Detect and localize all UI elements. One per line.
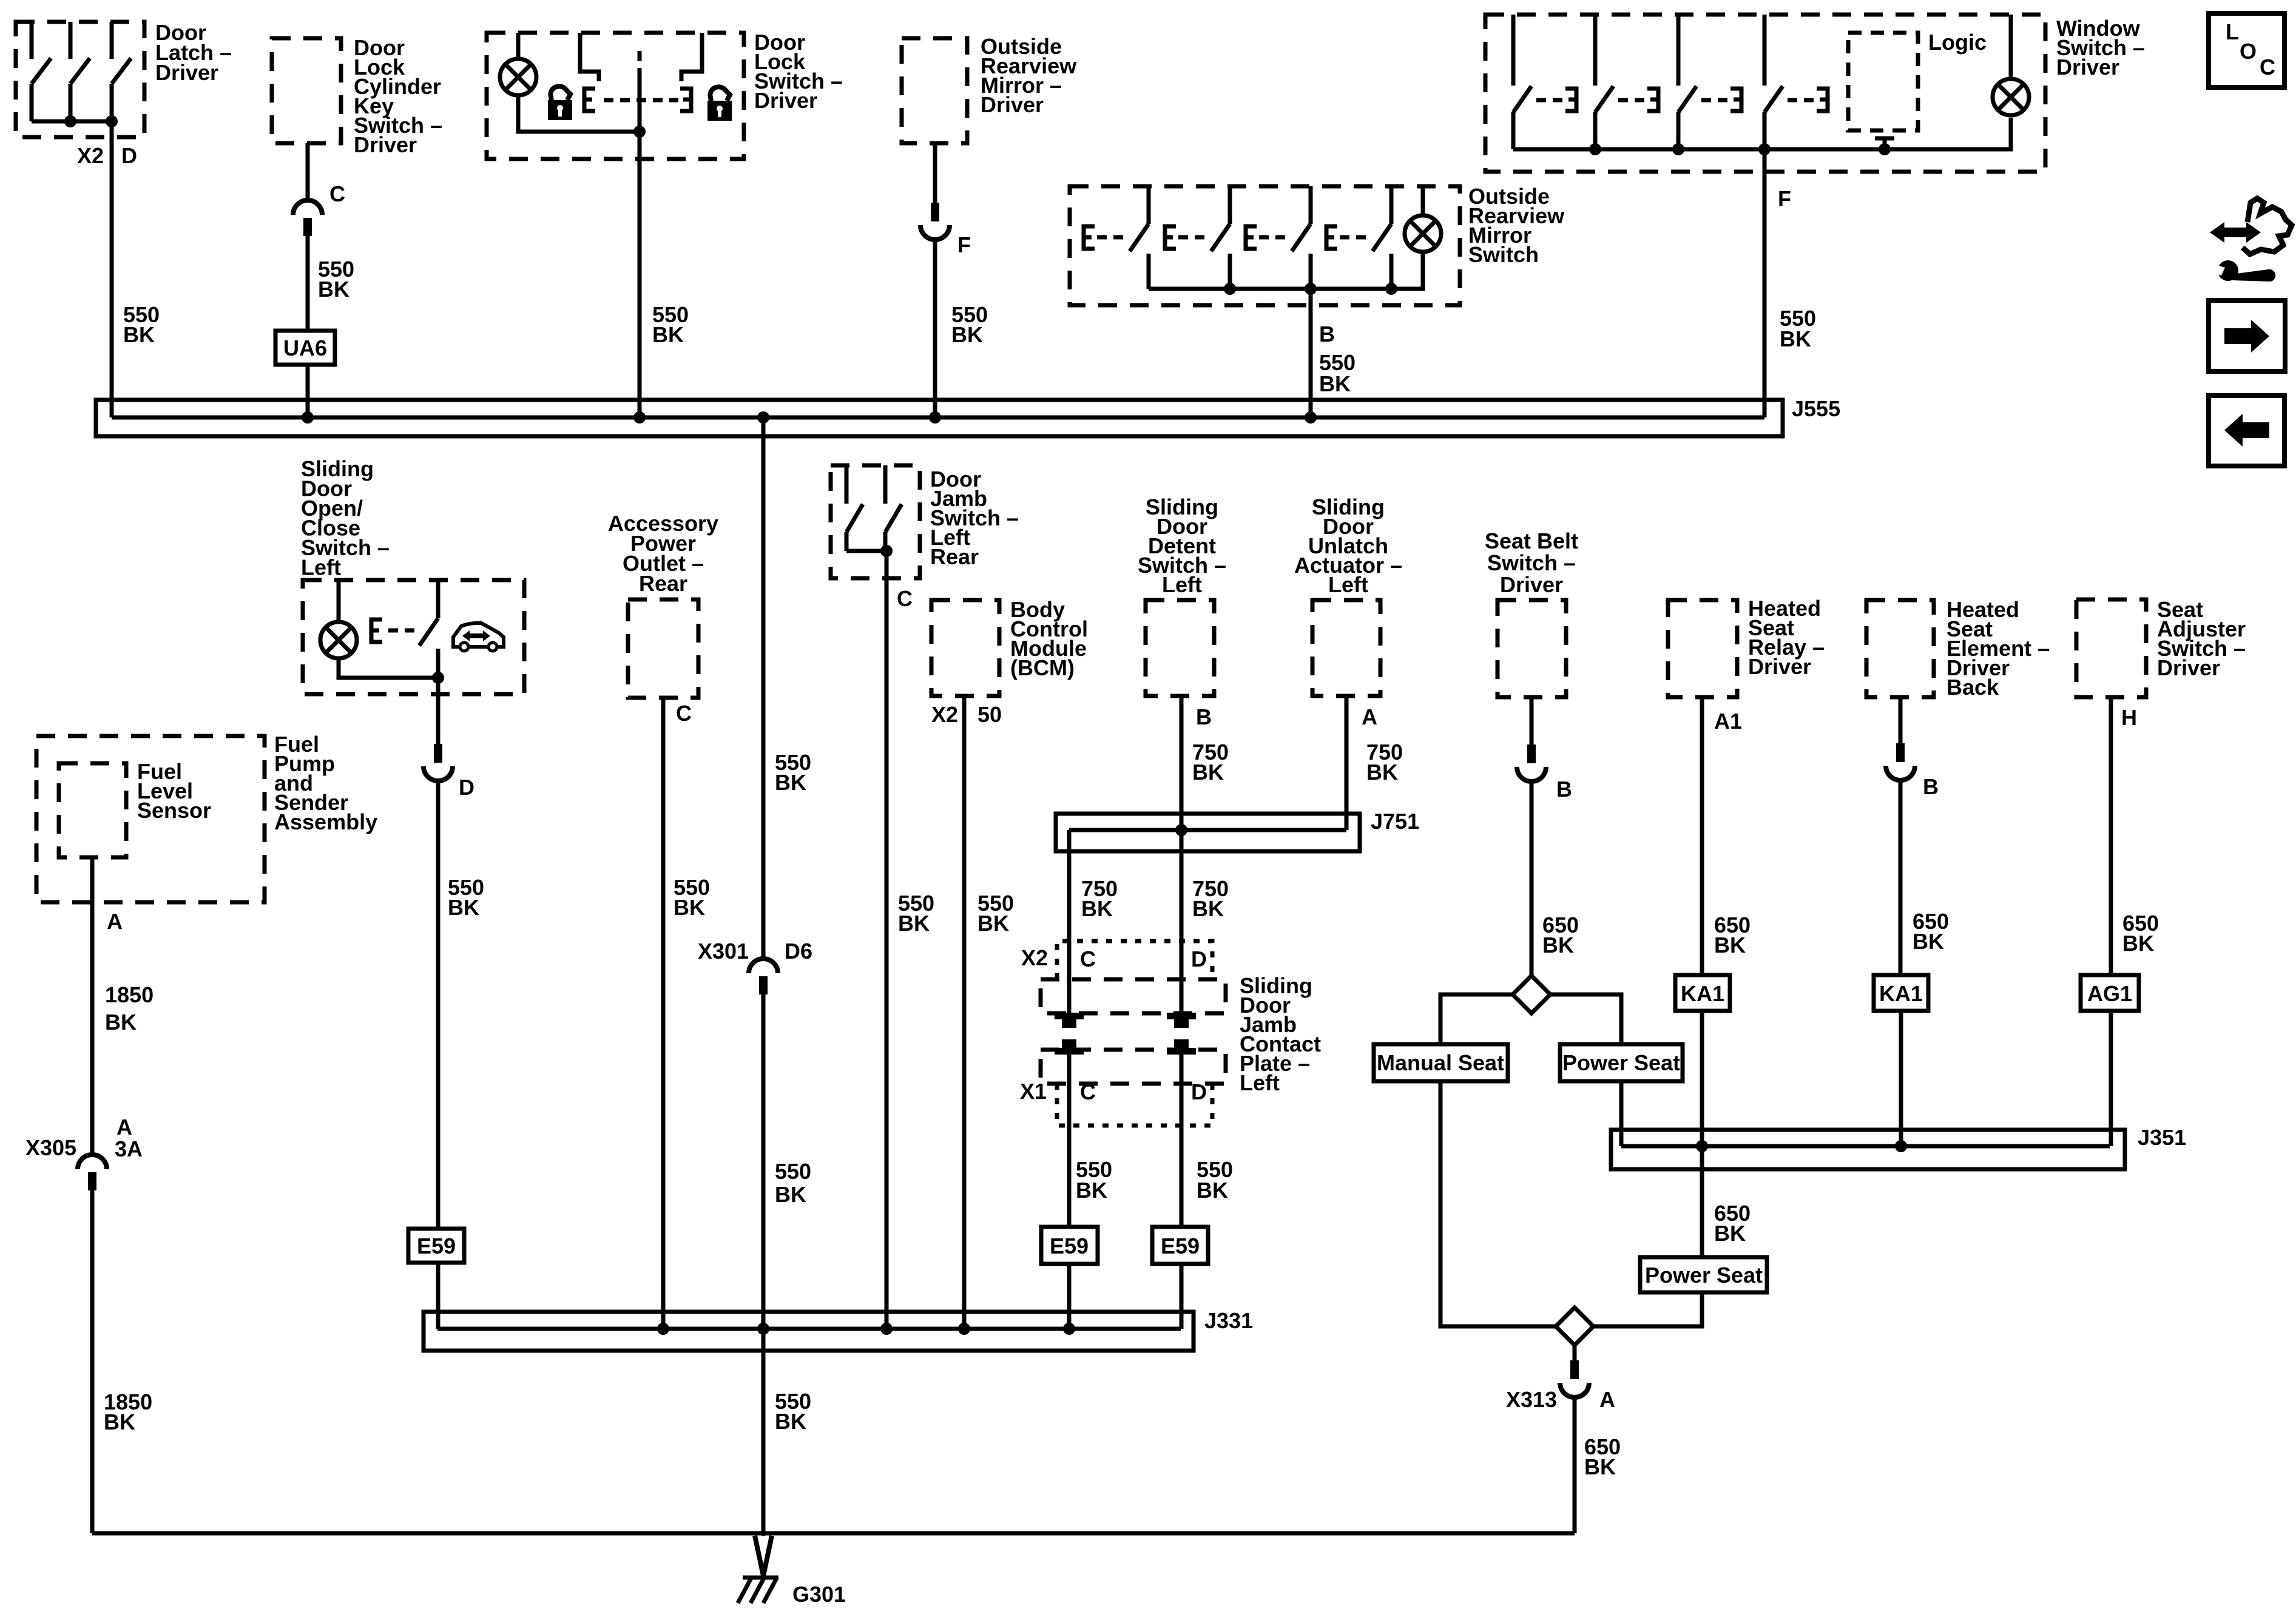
fuse box E59 plate C wire [1041,1227,1098,1264]
junction dot detent wire on J751 [1175,824,1187,836]
label D door latch pin [121,143,137,168]
svg-text:C: C [2260,55,2275,79]
label F connector mirror [957,232,971,257]
connector B seat belt [1517,744,1546,781]
component box Body Control Module BCM [931,600,999,696]
component box Sliding Door Detent Switch - Left [1146,600,1214,696]
switch stub sliding door [436,580,441,618]
label Window Switch - Driver [2056,16,2145,79]
svg-text:D: D [1191,947,1207,971]
wire X305 to ground line [90,1190,95,1533]
label 750 BK plate D wire [1192,876,1229,921]
label 650 BK seat belt wire [1542,913,1579,957]
svg-text:C: C [1080,947,1096,971]
junction dot door lock switch [633,126,646,138]
splice bus J751 outline [1056,814,1360,851]
wire J751 to contact plate C [1067,830,1072,1014]
svg-text:750BK: 750BK [1192,740,1229,785]
label Seat Belt Switch - Driver [1485,528,1578,597]
component box Door Lock Cylinder Key Switch - Driver [272,38,341,143]
svg-text:550BK: 550BK [318,257,354,302]
svg-text:KA1: KA1 [1681,981,1724,1006]
svg-text:D: D [1191,1079,1207,1104]
dashed link sliding door switch [388,629,415,633]
ground symbol G301 [738,1578,778,1603]
junction dot plate C wire on J331 [1063,1323,1075,1335]
svg-text:E59: E59 [1050,1234,1089,1258]
label Accessory Power Outlet - Rear [608,511,718,596]
label 650 BK element wire [1913,909,1949,954]
wire lamp to conductor sliding [339,658,438,678]
wire KA1 through J351 to Power Seat [1700,1011,1704,1257]
logic pin tick [1875,138,1894,149]
label 1850 BK fuel wire lower [104,1389,152,1434]
label C accessory outlet pin [676,701,692,726]
component box contact plate lower [1041,1050,1226,1084]
logic box window switch [1848,33,1918,130]
label X2 BCM connector [931,702,958,727]
label A unlatch pin [1362,704,1377,729]
wire contact plate C to J331 [1067,1053,1072,1329]
wire accessory outlet to J331 [661,698,666,1329]
svg-text:F: F [1778,186,1791,211]
svg-text:O: O [2240,39,2257,64]
component box Accessory Power Outlet - Rear [628,599,698,698]
svg-text:BK: BK [1197,1178,1228,1203]
label A X305 pin [116,1115,132,1139]
label Heated Seat Relay - Driver [1748,596,1825,679]
label 3A X305 [115,1136,143,1161]
label 550 BK below plate C [1076,1157,1112,1203]
label 750 BK unlatch wire [1366,740,1403,785]
label B detent pin [1196,704,1212,729]
svg-text:BK: BK [775,1182,806,1207]
component box Heated Seat Element - Driver Back [1866,600,1934,697]
wire Power Seat lower to lower diamond [1593,1292,1702,1326]
label A1 relay pin [1714,709,1742,734]
label C contact plate X2 [1080,947,1096,971]
component box Heated Seat Relay - Driver [1668,600,1737,697]
lamp stub mirror switch [1421,186,1425,215]
junction dot sliding door switch [432,672,444,684]
label X1 contact plate [1020,1079,1047,1104]
label B element connector [1923,774,1939,799]
svg-text:X313: X313 [1506,1387,1557,1412]
junction dot BCM wire on J331 [958,1323,970,1335]
conductor window switch [1513,118,2011,149]
junction dot UA6 wire on J555 [302,411,314,424]
label Outside Rearview Mirror - Driver [981,34,1077,117]
label Heated Seat Element - Driver Back [1947,597,2050,700]
switch hook right door lock switch [681,33,702,81]
component box Window Switch - Driver [1485,15,2045,172]
svg-text:750BK: 750BK [1081,876,1118,921]
label J751 [1371,809,1419,834]
junction dot mirror switch wire on J555 [1305,411,1317,424]
label 550 BK mirror switch wire [1319,350,1356,396]
svg-text:650BK: 650BK [1913,909,1949,954]
svg-text:G301: G301 [792,1582,846,1607]
label Seat Adjuster Switch - Driver [2157,597,2246,680]
svg-text:550BK: 550BK [448,875,484,920]
splice bus J331 conductor [437,1327,1181,1331]
svg-text:A: A [1362,704,1377,729]
label Sliding Door Open Close Switch - Left [301,456,390,580]
connector F mirror driver [920,203,950,240]
option box Manual Seat [1374,1044,1508,1081]
icon hand with wrench [2210,198,2292,282]
label J331 [1204,1308,1253,1333]
svg-text:Logic: Logic [1928,30,1987,55]
wire mirror driver to connector F [933,143,937,203]
component box Door Lock Switch - Driver [487,33,744,159]
contact lower D [1167,1039,1196,1055]
switch lower contact sliding door [436,649,441,678]
label D contact plate X1 [1191,1079,1207,1104]
label C contact plate X1 [1080,1079,1096,1104]
option box UA6 [275,331,335,365]
svg-text:D6: D6 [785,939,812,964]
wire J555 to X301 [761,417,766,960]
svg-text:C: C [1080,1079,1096,1104]
svg-text:550BK: 550BK [652,302,689,347]
junction dot main wire on J331 [757,1323,769,1335]
ground wire horizontal run [92,1531,1575,1536]
bracket 3 door lock switch [680,89,691,111]
wire UA6 to J555 [306,365,310,417]
svg-text:B: B [1319,322,1335,346]
dashed link door lock switch [604,98,678,103]
component box Door Latch - Driver [16,22,144,137]
conductor mirror switch [1149,253,1423,289]
wire X313 to ground line [1573,1397,1577,1533]
svg-text:1850: 1850 [105,982,154,1007]
junction dot jamb wire on J331 [880,1323,893,1335]
label 550 BK main wire lower [775,1159,811,1207]
svg-text:E59: E59 [1161,1234,1200,1258]
wire sliding door switch to connector D [436,678,441,744]
connector D sliding door [424,744,453,781]
label 550 BK sliding door wire [448,875,484,920]
wire window switch F to J555 [1763,149,1767,417]
component box Door Jamb Switch - Left Rear [831,465,920,578]
label Sliding Door Unlatch Actuator - Left [1294,495,1402,597]
svg-text:B: B [1556,777,1572,802]
connector X301 D6 [749,959,778,994]
lamp window switch [1993,79,2029,115]
splice bus J555 outline [96,400,1783,436]
label 650 BK relay wire [1714,913,1751,957]
label X313 [1506,1387,1557,1412]
label G301 [792,1582,846,1607]
label 50 BCM pin [977,702,1002,727]
svg-text:550BK: 550BK [123,302,160,347]
contact upper D [1167,1013,1196,1028]
component box Sliding Door Open Close Switch - Left [303,580,524,694]
svg-text:J555: J555 [1792,396,1840,421]
svg-text:J751: J751 [1371,809,1419,834]
label 550 BK main wire upper [775,750,811,795]
wire detent switch to J751 [1180,696,1184,830]
svg-text:KA1: KA1 [1879,981,1923,1006]
component box Sliding Door Unlatch Actuator - Left [1312,600,1380,696]
svg-text:X305: X305 [25,1135,76,1160]
svg-text:J331: J331 [1204,1308,1253,1333]
bracket E door lock switch [584,89,595,111]
label Door Lock Cylinder Key Switch - Driver [354,35,442,157]
svg-text:Manual Seat: Manual Seat [1377,1050,1504,1075]
svg-text:750BK: 750BK [1192,876,1229,921]
label 550 BK mirror driver wire [951,302,988,347]
wire connector D to J331 [436,781,441,1329]
connector C door lock cylinder [293,200,322,236]
option box AG1 [2081,975,2139,1011]
svg-text:550BK: 550BK [898,891,934,936]
svg-text:A: A [107,909,123,934]
component box Seat Adjuster Switch - Driver [2076,599,2146,697]
svg-text:B: B [1196,704,1212,729]
wire lower diamond to X313 [1573,1345,1577,1360]
svg-text:BK: BK [1780,326,1811,351]
label Sliding Door Jamb Contact Plate - Left [1240,973,1321,1095]
wire contact plate D to J331 [1180,1053,1184,1329]
junction dot mirror switch 2 [1305,283,1317,295]
junction dot mirror wire on J555 [929,411,941,424]
svg-text:C: C [329,181,345,206]
svg-text:E59: E59 [417,1234,456,1258]
wire cylinder switch to connector C [306,143,310,201]
wire lamp to conductor [518,95,640,132]
wire unlatch actuator to J751 [1345,696,1349,830]
splice bus J555 conductor [112,416,1764,420]
label C door jamb pin [897,586,913,611]
lamp sliding door switch [320,622,357,658]
wire AG1 to J351 [2109,1011,2113,1146]
svg-text:X2: X2 [1021,945,1048,970]
label 650 BK adjuster wire [2122,911,2159,956]
svg-text:X2: X2 [931,702,958,727]
svg-text:Power Seat: Power Seat [1645,1263,1763,1288]
component box Fuel Level Sensor [59,763,126,857]
contact upper C [1055,1013,1084,1028]
svg-text:D: D [459,775,474,800]
svg-text:J351: J351 [2138,1125,2186,1150]
svg-text:BK: BK [1319,371,1351,396]
wire fuel sensor to X305 [90,857,95,1156]
svg-text:650BK: 650BK [2122,911,2159,956]
junction dot main ground wire on J555 [757,411,769,424]
wire J751 to contact plate D [1180,830,1184,1014]
mechanical dash door lock switch [638,51,642,61]
fuse box E59 plate D wire [1152,1227,1208,1264]
label Door Jamb Switch - Left Rear [930,467,1019,569]
label 550 BK door latch wire [123,302,160,347]
splice bus J351 outline [1611,1130,2125,1169]
junction dot door latch [64,115,76,127]
label Fuel Level Sensor [137,759,211,823]
svg-text:650BK: 650BK [1542,913,1579,957]
label 550 BK accessory wire [674,875,710,920]
component box contact plate upper [1041,979,1226,1013]
connector X305 [78,1155,107,1190]
label B seat belt connector [1556,777,1572,802]
svg-text:X2: X2 [77,143,104,168]
wire connector C to UA6 [306,236,310,331]
junction dot logic pin [1879,143,1891,155]
wire BCM to J331 [962,696,967,1329]
component box Outside Rearview Mirror - Driver [902,38,967,143]
wire relay to KA1 [1700,697,1704,975]
wire mirror switch B to J555 [1309,289,1313,417]
connector box X2 contact plate [1057,941,1212,979]
svg-text:X301: X301 [698,939,749,964]
junction dot window switch 2 [1672,143,1684,155]
label D connector sliding door [459,775,474,800]
component box Seat Belt Switch - Driver [1497,600,1566,697]
svg-text:BK: BK [1076,1178,1107,1203]
label X301 [698,939,749,964]
switch hook left door lock switch [580,33,599,81]
label 650 BK below J351 [1714,1201,1751,1246]
padlock unlocked right [707,87,732,121]
option box Power Seat [1560,1044,1683,1081]
label 750 BK plate C wire [1081,876,1118,921]
bracket E sliding door switch [371,619,382,642]
svg-text:650BK: 650BK [1714,913,1751,957]
fuse box E59 sliding door wire [408,1229,464,1263]
splice bus J351 conductor [1621,1144,2110,1149]
option box Power Seat lower [1640,1257,1767,1292]
connector box X1 contact plate [1057,1084,1212,1126]
splice bus J751 conductor [1069,828,1346,832]
junction dot window switch 1 [1589,143,1601,155]
svg-text:H: H [2121,705,2137,730]
label A X313 pin [1599,1387,1615,1412]
label F window switch pin [1778,186,1791,211]
switch blade sliding door [419,618,438,646]
option box KA1 element [1874,975,1928,1011]
wire connector F to J555 [933,240,937,417]
svg-text:C: C [897,586,913,611]
svg-text:C: C [676,701,692,726]
lamp door lock switch [500,59,536,95]
label 550 BK ground wire [775,1389,811,1434]
switch contacts mirror switch [1084,186,1391,289]
wire J331 to ground line [761,1329,766,1536]
svg-text:550BK: 550BK [674,875,710,920]
nav box arrow left [2209,396,2284,466]
branch diamond seat belt [1513,976,1550,1013]
svg-text:UA6: UA6 [283,336,327,360]
switch contacts window switch [1513,15,1828,149]
contact lower C [1055,1039,1084,1055]
junction dot door lock switch wire on J555 [633,411,646,424]
label 550 BK below plate D [1197,1157,1233,1203]
label H adjuster pin [2121,705,2137,730]
label D contact plate X2 [1191,947,1207,971]
label 550 BK door jamb wire [898,891,934,936]
switch contacts Door Latch - Driver [32,22,131,121]
label 650 BK X313 wire [1584,1434,1621,1479]
wire diamond to Manual Seat [1440,994,1513,1044]
label 1850 BK fuel wire upper [105,982,154,1035]
label J555 [1792,396,1840,421]
switch contacts door jamb switch [846,465,902,551]
junction dot window switch 3 [1758,143,1771,155]
label Sliding Door Detent Switch - Left [1138,495,1226,597]
junction dot relay wire on J351 [1696,1140,1708,1152]
ground splice V at G301 [755,1536,772,1576]
wire door latch to J555 [110,121,114,417]
svg-text:750BK: 750BK [1366,740,1403,785]
junction dot mirror switch 3 [1385,283,1397,295]
svg-text:A1: A1 [1714,709,1742,734]
lamp mirror switch [1405,215,1441,252]
svg-text:550BK: 550BK [775,1389,811,1434]
lamp stub window switch [2009,15,2013,79]
svg-text:Power Seat: Power Seat [1562,1050,1680,1075]
svg-text:B: B [1923,774,1939,799]
padlock unlocked left [548,86,572,120]
connector B heated seat element [1886,743,1915,780]
nav box arrow right [2209,300,2285,371]
label 550 BK BCM wire [977,891,1014,936]
label A fuel sensor pin [107,909,123,934]
lamp stub door lock switch [516,33,521,59]
svg-text:550BK: 550BK [951,302,988,347]
svg-text:D: D [121,143,137,168]
wire Power Seat to J351 [1619,1081,1624,1146]
label Fuel Pump and Sender Assembly [274,732,377,834]
label Outside Rearview Mirror Switch [1468,184,1565,267]
svg-text:A: A [116,1115,132,1139]
svg-text:AG1: AG1 [2087,981,2132,1006]
wire X301 to J331 [761,994,766,1329]
component box Fuel Pump and Sender Assembly [36,736,265,902]
legend box LOC [2209,13,2284,87]
wire connector B to diamond [1530,781,1534,977]
label Door Latch - Driver [155,20,232,85]
label X2 contact plate [1021,945,1048,970]
label Door Lock Switch - Driver [754,30,843,113]
wire diamond to Power Seat [1550,994,1621,1044]
branch diamond X313 [1556,1308,1593,1345]
svg-text:A: A [1599,1387,1615,1412]
label 550 BK cylinder wire [318,257,354,302]
wire door jamb switch to J331 [885,551,889,1329]
connector X313 [1560,1360,1589,1397]
svg-text:550BK: 550BK [775,750,811,795]
svg-text:550BK: 550BK [977,891,1014,936]
junction dot mirror switch 1 [1224,283,1236,295]
svg-text:550: 550 [775,1159,811,1184]
junction dot accessory wire on J331 [657,1323,669,1335]
junction dot door jamb switch [880,545,893,557]
junction dot door latch 2 [106,115,118,127]
label D6 [785,939,812,964]
component box Outside Rearview Mirror Switch [1070,186,1460,305]
svg-text:L: L [2226,19,2239,44]
option box KA1 relay [1675,975,1730,1011]
car icon sliding door switch [453,623,504,651]
svg-text:3A: 3A [115,1136,143,1161]
svg-text:650BK: 650BK [1714,1201,1751,1246]
wire element connector to KA1 [1899,780,1903,975]
label 550 BK door lock switch wire [652,302,689,347]
splice bus J331 outline [424,1312,1194,1351]
svg-text:50: 50 [977,702,1002,727]
wire Manual Seat to lower diamond [1440,1081,1556,1326]
